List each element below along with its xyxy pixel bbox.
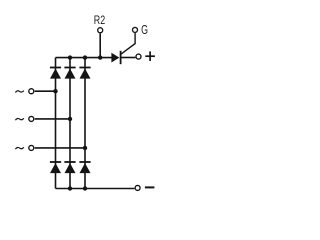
- svg-text:R2: R2: [94, 13, 106, 27]
- svg-text:G: G: [141, 22, 148, 37]
